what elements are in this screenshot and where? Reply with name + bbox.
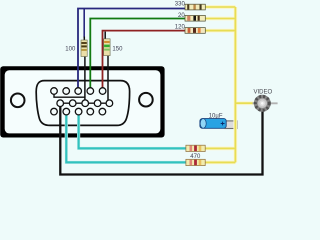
svg-text:330: 330 (175, 2, 186, 8)
svg-text:470: 470 (190, 154, 201, 160)
svg-text:150: 150 (112, 46, 123, 52)
svg-text:10µF: 10µF (209, 114, 223, 120)
svg-text:VIDEO: VIDEO (253, 90, 272, 96)
svg-text:120: 120 (175, 24, 186, 30)
svg-text:20: 20 (178, 13, 185, 19)
svg-text:100: 100 (65, 46, 76, 52)
